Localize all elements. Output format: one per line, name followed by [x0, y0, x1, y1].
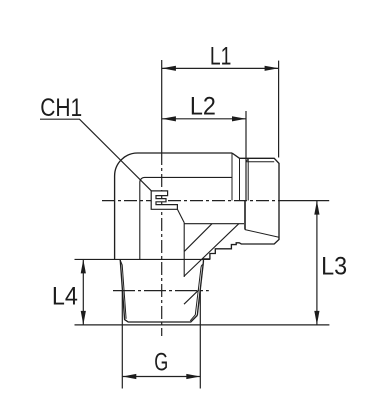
- svg-text:L1: L1: [210, 43, 232, 71]
- svg-text:L3: L3: [321, 253, 347, 281]
- svg-text:CH1: CH1: [40, 94, 82, 122]
- svg-text:G: G: [154, 349, 168, 377]
- svg-text:L4: L4: [52, 282, 78, 310]
- svg-text:L2: L2: [190, 92, 216, 120]
